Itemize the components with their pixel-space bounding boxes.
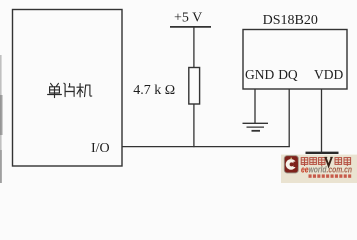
svg-text:4.7 k Ω: 4.7 k Ω bbox=[133, 83, 175, 98]
svg-text:eeworld.com.cn: eeworld.com.cn bbox=[301, 164, 352, 174]
svg-text:DS18B20: DS18B20 bbox=[263, 13, 318, 28]
svg-text:I/O: I/O bbox=[91, 141, 110, 156]
svg-text:+5 V: +5 V bbox=[174, 11, 202, 26]
svg-text:VDD: VDD bbox=[314, 67, 343, 82]
svg-text:GND: GND bbox=[245, 67, 274, 82]
svg-text:DQ: DQ bbox=[278, 67, 298, 82]
